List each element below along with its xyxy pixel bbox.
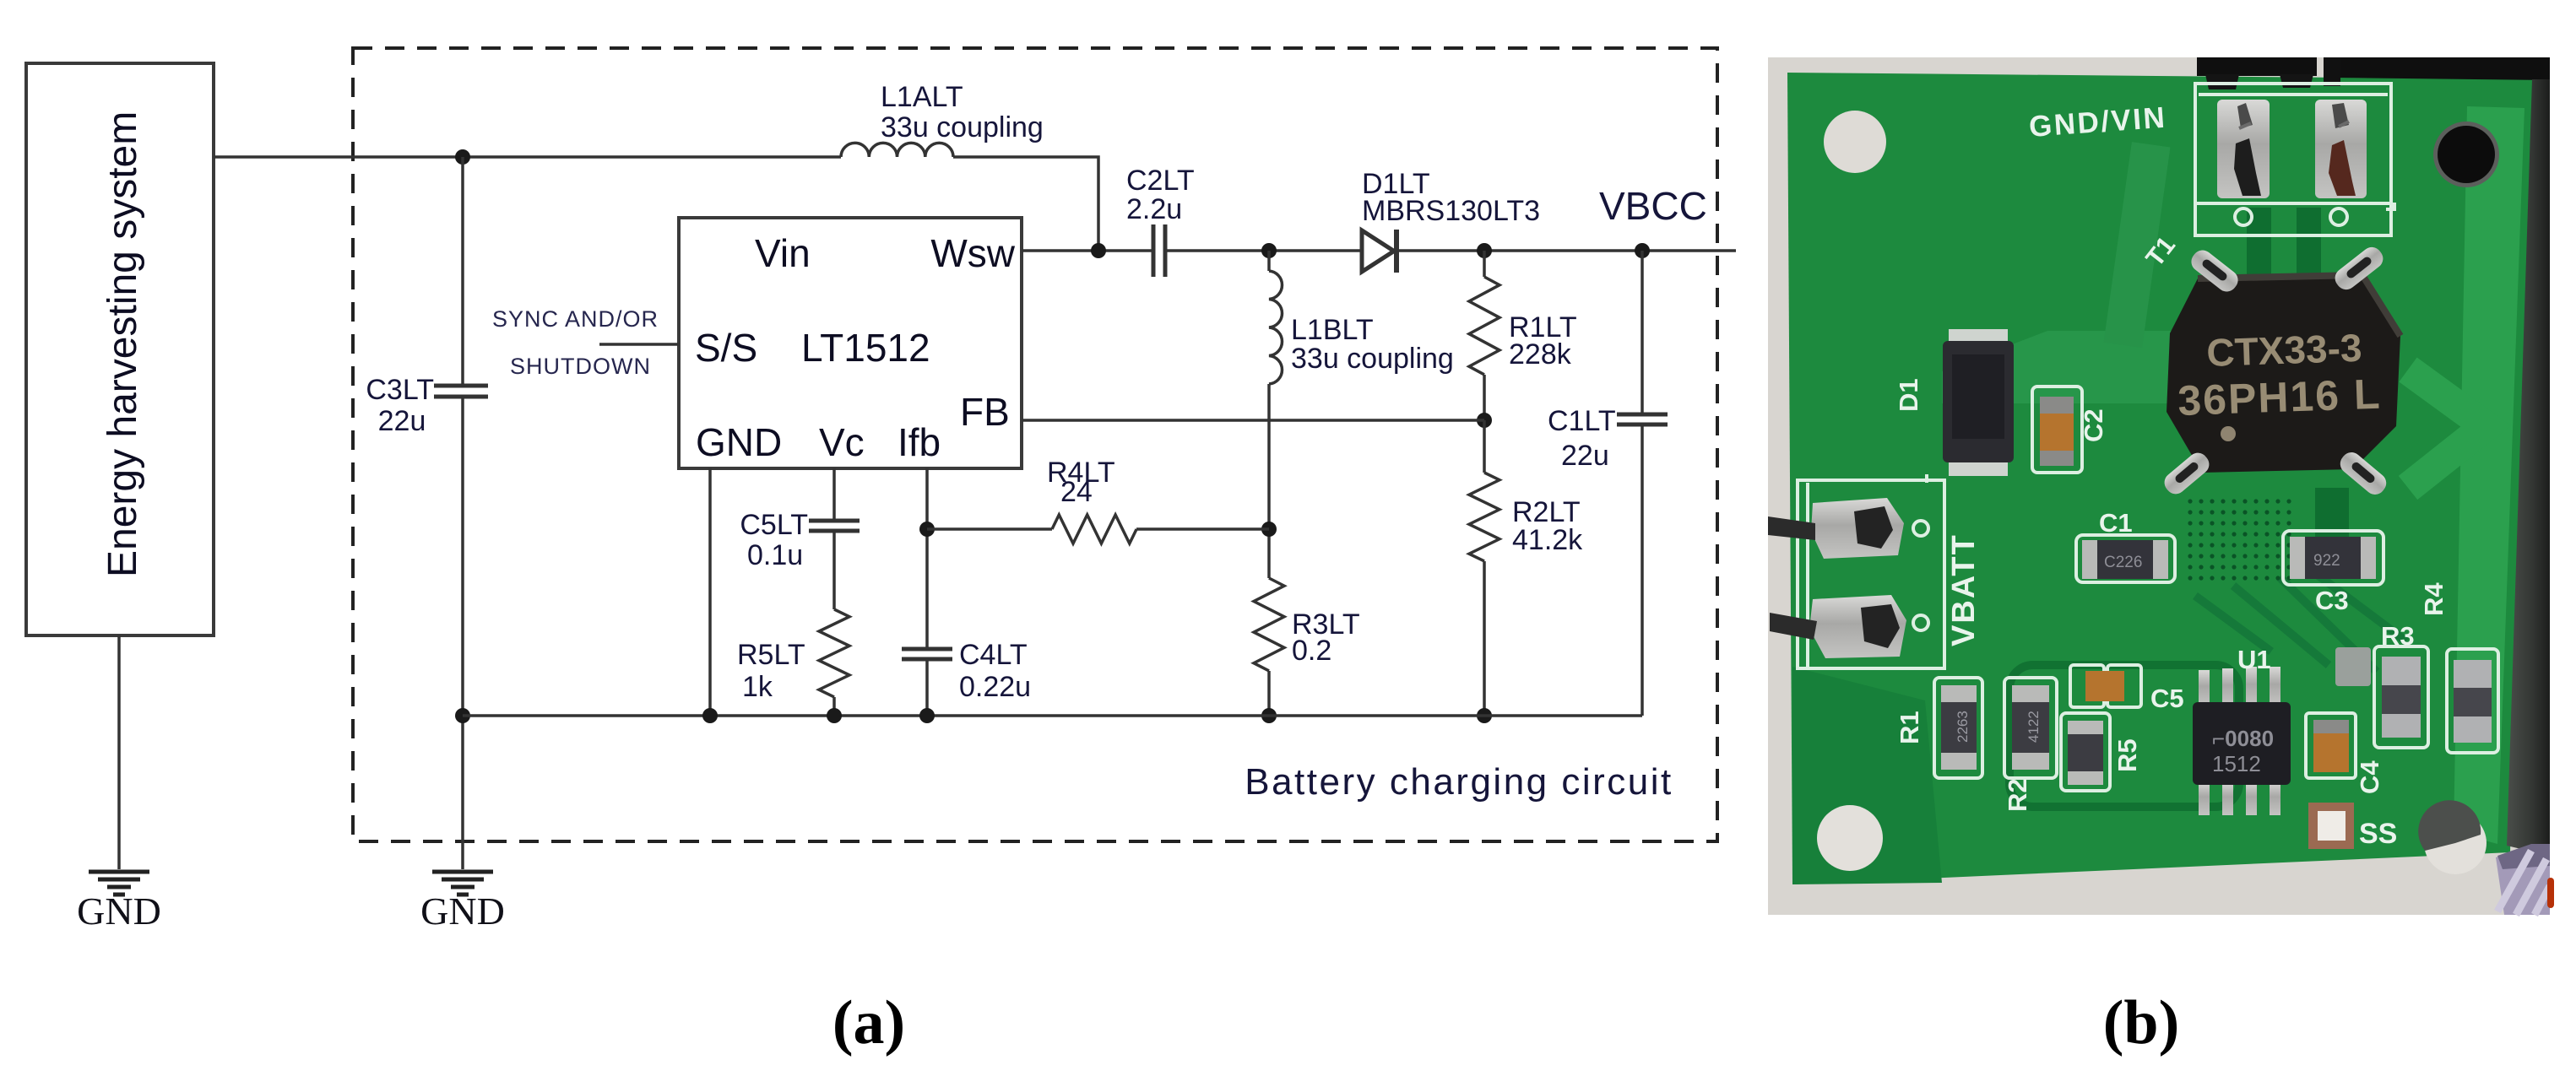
svg-text:(b): (b) [2103,988,2179,1057]
R1 resistor [1934,678,1982,778]
node R2LT rail junction [1477,708,1492,723]
node GND pin rail junction [702,708,718,723]
svg-text:U1: U1 [2237,645,2271,674]
light chevron near toroid [2408,370,2486,488]
C4 capacitor [2306,713,2356,778]
svg-text:0.2: 0.2 [1292,635,1331,667]
S/S pin wire [599,343,679,346]
svg-text:C5LT: C5LT [740,509,808,541]
wire C4LT to rail [925,659,929,716]
toroid inductor T1 [2167,275,2400,473]
dark trace outline lower-left [2009,665,2239,807]
wire L1BLT to R3LT [1267,384,1271,578]
svg-text:GND: GND [77,889,161,933]
svg-text:R1: R1 [1895,711,1924,744]
connector silk outline [2195,84,2394,235]
light copper pour right band [2454,106,2524,844]
svg-text:C226: C226 [2104,554,2142,571]
node FB divider junction [1477,413,1492,428]
svg-text:922: 922 [2313,552,2340,570]
node R1LT top junction [1477,243,1492,258]
pcb board [1787,73,2534,884]
svg-text:C1: C1 [2099,508,2133,538]
Vc pin wire [832,468,836,521]
R5 resistor [2061,713,2110,791]
lavender cable bottom right [2496,846,2550,915]
SS pad [2308,803,2354,849]
svg-text:2.2u: 2.2u [1126,193,1182,225]
Ifb pin wire [925,468,929,649]
inductor L1BLT [1267,251,1271,271]
ground symbol (schematic) [432,872,493,895]
resistor R1LT [1483,251,1486,277]
black wire tips left [1768,516,1815,540]
svg-text:C3LT: C3LT [366,374,434,406]
svg-text:⌐0080: ⌐0080 [2212,726,2274,751]
node C1LT top junction (VBCC) [1635,243,1650,258]
R4LT wire [927,527,1052,531]
ground EHS [89,872,149,895]
svg-text:33u coupling: 33u coupling [881,111,1044,143]
wire EHS box to ground [117,635,121,869]
svg-text:Vc: Vc [819,420,865,464]
FB wire [1022,419,1484,422]
svg-text:22u: 22u [1561,440,1609,472]
svg-text:1512: 1512 [2212,751,2261,776]
svg-text:C5: C5 [2150,684,2184,713]
node R4LT/L1BLT junction [1261,522,1277,537]
svg-text:Battery charging circuit: Battery charging circuit [1245,761,1673,803]
red mark [2547,878,2554,908]
dashed battery charging box [353,48,1717,841]
inductor L1ALT [841,143,953,157]
GND pin wire [708,468,712,716]
hole bottom-left [1817,805,1883,871]
svg-text:24: 24 [1060,476,1093,508]
svg-text:22u: 22u [378,405,426,437]
node R3LT rail junction [1261,708,1277,723]
svg-text:LT1512: LT1512 [801,326,930,370]
hole top-left [1824,111,1886,173]
svg-text:R5: R5 [2112,738,2142,772]
C3 capacitor [2283,531,2383,585]
resistor R2LT [1469,473,1500,561]
svg-text:L1BLT: L1BLT [1291,314,1374,346]
node dot C3LT rail [455,708,470,723]
svg-text:L1ALT: L1ALT [881,81,963,113]
svg-text:S/S: S/S [695,326,757,370]
svg-text:(a): (a) [832,988,905,1057]
U1 IC [2199,667,2280,815]
R3 resistor [2374,646,2428,748]
svg-text:41.2k: 41.2k [1512,524,1583,556]
svg-text:GND: GND [420,889,505,933]
svg-text:FB: FB [960,390,1010,434]
capacitor C2LT [1153,224,1165,277]
svg-text:R5LT: R5LT [737,639,805,671]
svg-text:SYNC AND/OR: SYNC AND/OR [492,306,659,332]
wire C3LT upper [461,157,464,386]
wire C3LT lower to rail and ground [461,397,464,869]
svg-text:4122: 4122 [2026,711,2042,743]
wire: L1ALT to Wsw node [953,157,1098,251]
svg-text:SHUTDOWN: SHUTDOWN [510,354,651,379]
black connector tabs at top [2197,57,2317,76]
R2 resistor [2004,678,2057,778]
wire C5LT to R5LT [832,531,836,609]
svg-text:R4: R4 [2419,582,2449,616]
photo background [1768,57,2550,915]
C1 capacitor [2076,535,2175,582]
IC LT1512 box U1 [679,218,1022,468]
node L1BLT top junction [1261,243,1277,258]
faint glare streak [2104,142,2171,348]
svg-text:C4LT: C4LT [959,639,1028,671]
wire C2LT to diode [1165,249,1360,252]
R4 resistor [2447,649,2498,753]
svg-text:2263: 2263 [1955,711,1971,743]
wire: box to L1ALT [214,155,841,159]
svg-text:C3: C3 [2315,586,2349,615]
svg-text:VBATT: VBATT [1946,533,1982,646]
diode D1LT [1362,230,1394,272]
ground rail [463,714,1642,717]
svg-text:0.1u: 0.1u [747,539,803,571]
VBATT connector outline [1798,474,1944,668]
C5 capacitor [2070,665,2104,707]
node R5LT rail junction [827,708,842,723]
connector solder pads [2217,100,2270,198]
VBATT solder blobs [1811,498,1904,559]
grey pad square [2335,647,2371,686]
svg-text:R3: R3 [2381,621,2415,651]
capacitor C4LT [902,649,952,659]
dark trace toroid to C3 [2315,488,2349,542]
svg-text:1k: 1k [742,671,773,703]
dark trace fan near U1 [2195,565,2406,672]
svg-text:GND: GND [696,420,782,464]
capacitor C5LT [809,521,860,531]
C2 capacitor [2032,387,2082,473]
node L1ALT/C2LT junction [1091,243,1106,258]
resistor R5LT [819,609,849,697]
svg-text:Wsw: Wsw [930,231,1015,275]
dark object right side [2507,79,2550,856]
svg-text:VBCC: VBCC [1599,184,1707,228]
resistor R3LT [1254,578,1284,671]
svg-text:SS: SS [2359,818,2397,850]
svg-text:33u coupling: 33u coupling [1291,343,1454,375]
light diagonal swath [1942,331,2229,403]
D1 diode [1949,329,2008,348]
svg-text:0.22u: 0.22u [959,671,1031,703]
node dot C3LT top [455,149,470,165]
toroid clips [2161,243,2390,499]
dark trace strips below connector [2247,208,2271,285]
svg-text:36PH16 L: 36PH16 L [2177,370,2382,424]
node C4LT rail junction [919,708,935,723]
Energy harvesting system box [26,63,214,635]
via dot grid [2188,499,2291,580]
svg-text:C2LT: C2LT [1126,165,1195,197]
svg-text:R2: R2 [2003,778,2032,812]
Wsw output wire [1022,249,1153,252]
wire diode to VBCC end [1393,249,1736,252]
capacitor C1LT [1641,251,1644,414]
hole top-right (dark) [2433,122,2499,187]
node Ifb/R4LT junction [919,522,935,537]
svg-text:C4: C4 [2355,760,2384,794]
svg-text:Vin: Vin [755,231,811,275]
svg-text:Energy harvesting system: Energy harvesting system [100,111,145,577]
hole bottom-right [2424,812,2487,874]
svg-text:C1LT: C1LT [1548,405,1616,437]
svg-text:D1: D1 [1894,378,1923,412]
svg-text:C2: C2 [2079,408,2108,442]
svg-text:Ifb: Ifb [898,420,941,464]
capacitor C3LT [434,386,488,397]
svg-text:CTX33-3: CTX33-3 [2206,326,2363,375]
svg-text:228k: 228k [1509,338,1572,370]
svg-text:MBRS130LT3: MBRS130LT3 [1362,195,1540,227]
